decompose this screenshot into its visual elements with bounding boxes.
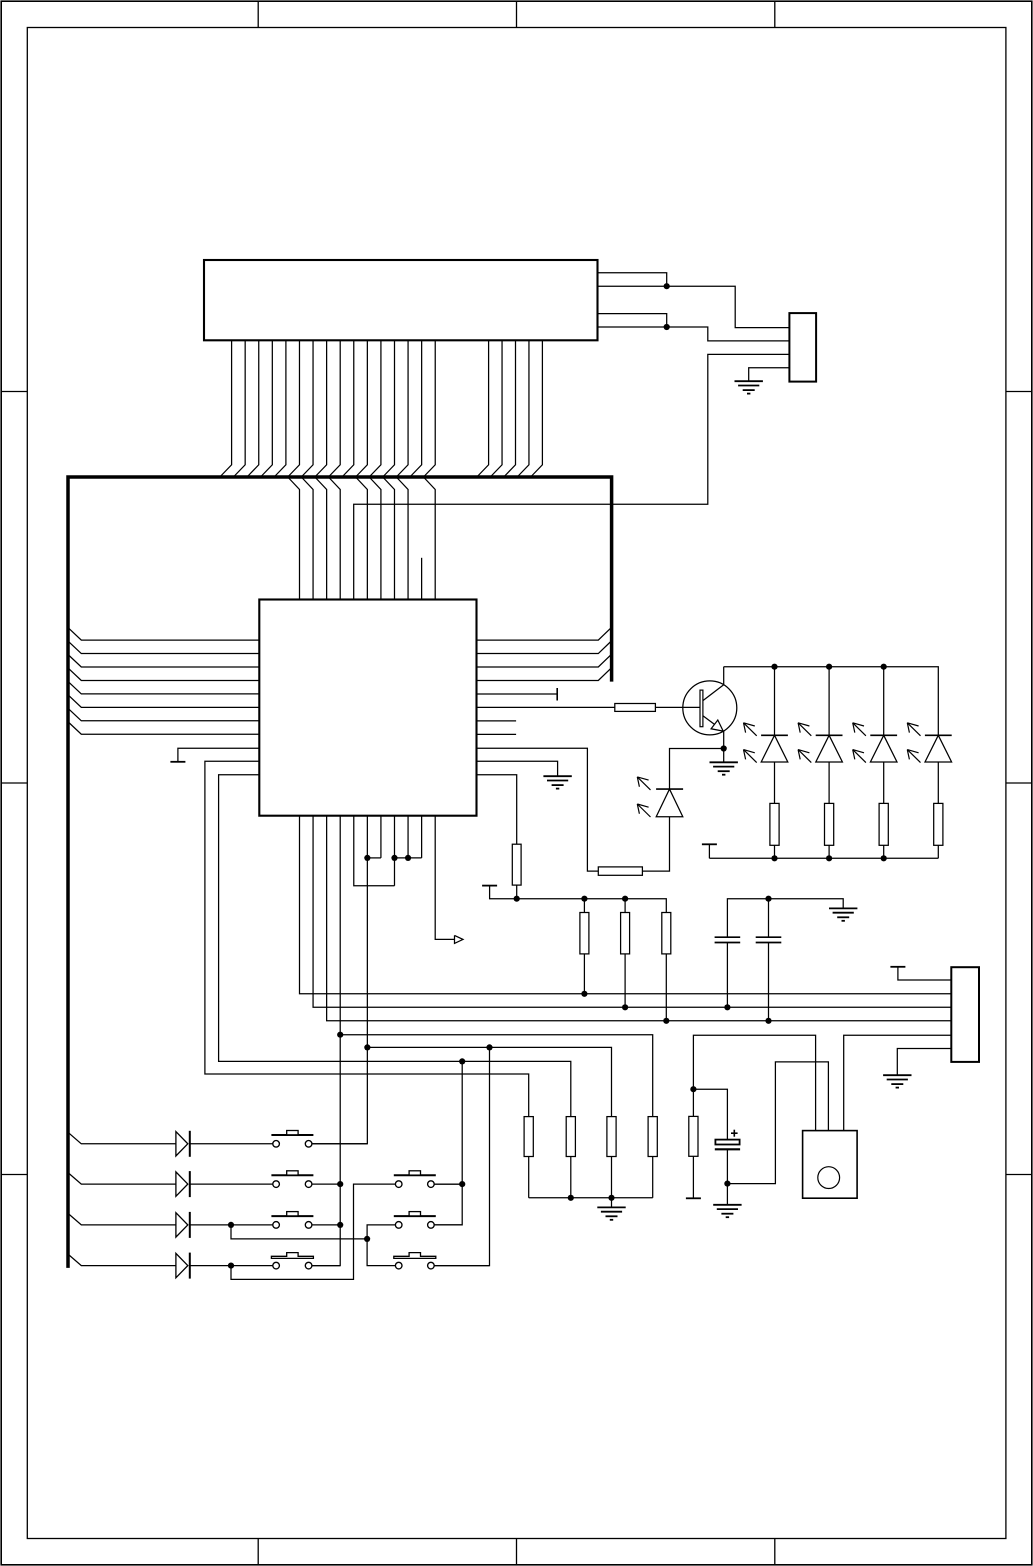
- ground under J1: [735, 380, 763, 382]
- wire U2 right pin8 stub: [477, 733, 517, 735]
- U2 top pin10 stub: [421, 558, 423, 600]
- junction R5 node: [690, 1086, 696, 1092]
- connector J1: [789, 313, 816, 382]
- wire R1-R4 common rail: [529, 1197, 653, 1199]
- junction Rc/busC: [663, 1018, 669, 1024]
- wire R6 to Q1 base: [655, 706, 700, 708]
- wire R4 bottom: [652, 1157, 654, 1198]
- pushbutton SW5: [394, 1171, 436, 1188]
- wire underpass to col2 row3 left: [367, 1225, 396, 1239]
- resistor R6: [615, 704, 656, 712]
- wire col2 row2 right branch: [434, 1183, 462, 1185]
- buzzer LS1: [803, 1131, 858, 1199]
- terminal T5: [686, 1197, 701, 1199]
- wire U2 pinB4 matrix column riser: [312, 816, 341, 1266]
- junction row4 left: [228, 1263, 234, 1269]
- wire LED3 to resistor: [883, 762, 885, 803]
- wire Ra top: [583, 899, 585, 913]
- probe arrow: [455, 935, 464, 943]
- MCU U2: [259, 600, 476, 816]
- diode D3: [176, 1212, 190, 1238]
- bus (thick net): [68, 477, 612, 1268]
- resistor R8: [512, 844, 521, 885]
- wire LED2 to resistor: [828, 762, 830, 803]
- terminal T4: [170, 761, 185, 763]
- ground at U2 right pin10: [543, 775, 571, 777]
- pushbutton SW2: [271, 1171, 313, 1188]
- wire RL2 to cathode rail: [828, 845, 830, 858]
- ground under C3: [713, 1204, 741, 1206]
- resistor R3: [607, 1117, 616, 1157]
- connector/display U1: [204, 260, 598, 340]
- ground under R rail: [597, 1206, 625, 1208]
- wire U2 right pin9 to R7: [477, 748, 599, 871]
- wire U2 right pin6 to R6: [477, 706, 615, 708]
- junction U1 pins 3-4: [664, 324, 670, 330]
- wire SW3 to riser: [312, 1224, 341, 1226]
- wire col2 row4 right riser: [434, 1047, 490, 1265]
- wire Rb bottom to bus line B: [624, 954, 626, 1007]
- wire D3 to switch SW3: [190, 1224, 273, 1226]
- wire buzzer pin1 net: [693, 1035, 815, 1130]
- capacitor C3 electrolytic: [715, 1130, 740, 1150]
- wire C3 minus to buzzer pin2: [727, 1062, 828, 1184]
- U2 top pin wires from bus: [289, 478, 436, 600]
- wire rail to LED1: [774, 667, 776, 736]
- wire Ra bottom to bus line A: [583, 954, 585, 994]
- junction pinB4/R4 line: [337, 1032, 343, 1038]
- wire J1 pin4 to ground: [749, 368, 790, 381]
- wire U1 right pin 4 to J1 pin2: [598, 327, 790, 341]
- junction Rb/busB: [622, 1004, 628, 1010]
- junction cathode rail: [826, 855, 832, 861]
- wire emitter to ground: [723, 749, 725, 763]
- wire mtx2 line to R3 top: [367, 1047, 611, 1116]
- pushbutton SW4: [271, 1253, 313, 1269]
- wire C2 bottom to busC: [768, 943, 770, 1021]
- wire SW4 to riser: [312, 1265, 341, 1267]
- wire C2 top: [768, 899, 770, 938]
- wire SW6 right: [434, 1224, 462, 1226]
- wire U1 right pin 1: [598, 273, 667, 286]
- junction riser row3: [337, 1222, 343, 1228]
- junction cathode rail: [881, 855, 887, 861]
- wire U1 right pin 2 to J1 pin1: [598, 286, 790, 327]
- wire C1 bottom to busB: [726, 943, 728, 1008]
- wire emitter to photodiode PD1: [670, 749, 724, 790]
- wire U1 right pin 3: [598, 314, 667, 327]
- resistor RL3: [879, 803, 888, 845]
- junction C2/busC: [765, 1018, 771, 1024]
- junction mtx2 col2row4 riser: [486, 1044, 492, 1050]
- LED3: [853, 723, 897, 763]
- junction Rb top: [622, 896, 628, 902]
- wire R3 bottom: [611, 1157, 613, 1198]
- wire U2 pinB8: [393, 816, 395, 886]
- wire J2 pin6 to ground: [897, 1049, 951, 1076]
- junction R8 bottom: [514, 896, 520, 902]
- junction LED1 anode: [771, 664, 777, 670]
- junction Ra/busA: [581, 991, 587, 997]
- wire bus to diode D2: [68, 1173, 176, 1185]
- wire D1 to switch SW1: [190, 1143, 273, 1145]
- resistor R2: [566, 1117, 575, 1157]
- junction B9: [405, 855, 411, 861]
- junction U1 pins 1-2: [664, 283, 670, 289]
- wire to R4 top: [340, 1035, 652, 1117]
- wire LED cathode rail: [709, 857, 938, 859]
- wire U2 right pin5 with bar end: [477, 693, 558, 695]
- wire C3 minus to ground: [726, 1184, 728, 1205]
- wire PD1 to R7: [642, 817, 669, 871]
- ground at Q1 emitter: [710, 761, 738, 763]
- junction riser row2: [337, 1181, 343, 1187]
- resistor R4: [648, 1117, 657, 1157]
- terminal T1: [890, 966, 905, 968]
- wire bus to diode D3: [68, 1213, 176, 1225]
- junction R2 rail: [568, 1195, 574, 1201]
- wire U2 pinB5: [354, 816, 395, 886]
- wire U2 left pin10 to R1 top: [205, 761, 529, 1116]
- wire Rb top: [624, 899, 626, 913]
- wire row3 underpass: [231, 1225, 367, 1239]
- LED1: [744, 723, 788, 763]
- U1 bottom pin wires into bus: [221, 340, 543, 476]
- pushbutton SW6: [394, 1212, 436, 1229]
- wire U2 pinB10: [421, 816, 423, 858]
- terminal T2: [482, 885, 497, 887]
- resistor R7: [598, 867, 642, 875]
- junction riser row2 col2: [459, 1181, 465, 1187]
- LED2: [798, 723, 842, 763]
- wire U2 pinB11 to probe arrow: [435, 816, 454, 940]
- resistor RL1: [770, 803, 779, 845]
- junction cathode rail: [771, 855, 777, 861]
- wire RL4 to cathode rail: [937, 845, 939, 858]
- wire underpass to col2 row4 left: [367, 1239, 396, 1266]
- wire bus to diode D1: [68, 1132, 176, 1144]
- wire Q1 collector to LED rail: [723, 667, 725, 685]
- junction riser mtx3: [459, 1058, 465, 1064]
- wire U2 pinB3 bus line C to J2: [327, 816, 952, 1021]
- wire LED1 to resistor: [774, 762, 776, 803]
- junction LED3 anode: [881, 664, 887, 670]
- junction C1/busB: [724, 1004, 730, 1010]
- wire Q1 emitter junction: [723, 732, 725, 749]
- wire col2 rows2-3 right riser: [434, 1061, 462, 1225]
- wire rail to LED3: [883, 667, 885, 736]
- wire RL1 to cathode rail: [774, 845, 776, 858]
- junction emitter: [721, 745, 727, 751]
- diode D4: [176, 1253, 190, 1279]
- U2 right pin wires 1-4 to bus: [477, 627, 612, 680]
- wire power rail segment 1: [490, 886, 667, 913]
- wire rail to LED2: [828, 667, 830, 736]
- wire R2 bottom: [570, 1157, 572, 1198]
- wire U2 pinB6 to R3 line: [366, 816, 368, 1048]
- wire Rc bottom to bus line C: [665, 954, 667, 1021]
- pushbutton SW1: [271, 1131, 313, 1148]
- wire D2 to switch SW2: [190, 1183, 273, 1185]
- wire row1 riser: [312, 1047, 368, 1143]
- capacitor C1: [715, 937, 741, 942]
- junction C2 top: [765, 896, 771, 902]
- wire bus to diode D4: [68, 1254, 176, 1266]
- resistor RL4: [934, 803, 943, 845]
- wire node to C3 plus: [693, 1089, 727, 1139]
- wire row4 underpass to col2 row2 left: [231, 1184, 396, 1279]
- wire rail to ground: [611, 1198, 613, 1208]
- pushbutton SW7: [394, 1253, 436, 1269]
- U2 left pin wires 1-8 from bus: [68, 628, 259, 735]
- diode D1: [176, 1131, 190, 1157]
- wire R5 bottom to terminal: [692, 1156, 694, 1198]
- resistor R5: [689, 1116, 698, 1156]
- wire J2 pin1 to terminal T1: [898, 967, 951, 980]
- ground under J2: [883, 1074, 911, 1076]
- wire R8 bottom: [516, 885, 518, 899]
- wire U2 right pin10 to ground: [477, 761, 558, 776]
- terminal T3: [708, 844, 710, 858]
- resistor RL2: [825, 803, 834, 845]
- wire U2 pinB7: [380, 816, 382, 858]
- resistor Rc: [662, 913, 671, 954]
- pushbutton SW3: [271, 1212, 313, 1229]
- wire R1 bottom: [528, 1157, 530, 1198]
- wire buzzer pin3 to J2 pin5: [844, 1035, 952, 1130]
- wire SW5 right: [434, 1183, 462, 1185]
- wire U2 left pin9 to terminal: [178, 748, 259, 762]
- wire U2 pinB2 bus line B to J2: [313, 816, 951, 1008]
- wire U2 right pin11 to R8: [477, 775, 517, 845]
- resistor Rb: [621, 913, 630, 954]
- ground at rail segment 2: [829, 907, 857, 909]
- junction row3 left: [228, 1222, 234, 1228]
- wire SW2 to riser: [312, 1183, 341, 1185]
- capacitor C2: [756, 937, 782, 942]
- LED4: [907, 723, 951, 763]
- junction mtx2 left: [364, 1044, 370, 1050]
- wire C3 minus node: [726, 1149, 728, 1183]
- wire joining B6-B7: [367, 857, 381, 859]
- junction B6: [364, 855, 370, 861]
- wire J1 pin3 to U2 top pin5: [354, 354, 790, 599]
- junction Ra top: [581, 896, 587, 902]
- wire U2 pinB9: [407, 816, 409, 858]
- resistor R1: [524, 1117, 533, 1157]
- wire joining B8-B10: [394, 857, 421, 859]
- wire power rail segment 2: [727, 899, 843, 938]
- photodiode PD1: [637, 777, 683, 817]
- wire U2 left pin11 to R2 top: [219, 775, 571, 1117]
- junction B8: [391, 855, 397, 861]
- wire D4 to switch SW4: [190, 1265, 273, 1267]
- wire RL3 to cathode rail: [883, 845, 885, 858]
- wire SW7 right: [434, 1265, 490, 1267]
- resistor Ra: [580, 913, 589, 954]
- junction R3 rail: [608, 1195, 614, 1201]
- transistor Q1: [683, 681, 737, 735]
- wire LED4 to resistor: [937, 762, 939, 803]
- diode D2: [176, 1171, 190, 1197]
- junction LED2 anode: [826, 664, 832, 670]
- junction C3 minus: [724, 1181, 730, 1187]
- junction underpass: [364, 1236, 370, 1242]
- wire SW1 to riser: [312, 1143, 368, 1145]
- wire U2 pinB1 bus line A to J2: [300, 816, 952, 994]
- wire U2 right pin7 stub: [477, 720, 517, 722]
- connector J2: [951, 967, 979, 1062]
- wire LED anode rail: [724, 667, 939, 736]
